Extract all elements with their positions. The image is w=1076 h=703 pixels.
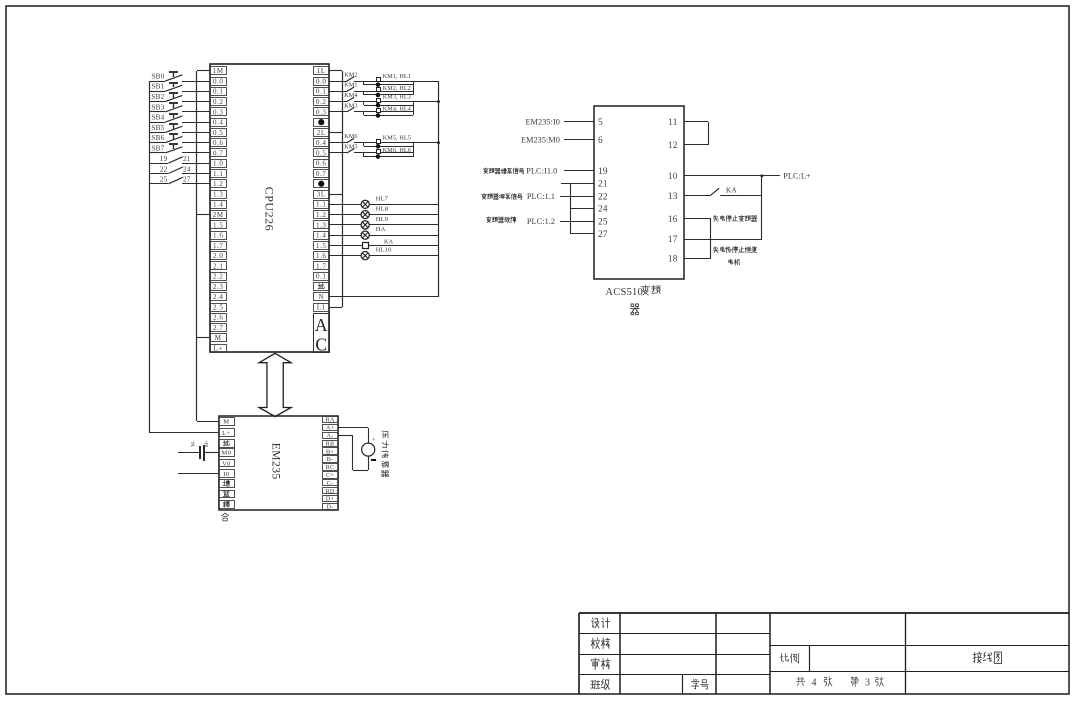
svg-text:16: 16 bbox=[668, 214, 678, 224]
svg-text:1.1: 1.1 bbox=[213, 170, 223, 178]
svg-text:SB7: SB7 bbox=[151, 144, 164, 152]
svg-text:2.3: 2.3 bbox=[213, 283, 223, 291]
svg-text:M: M bbox=[215, 334, 222, 342]
svg-text:10: 10 bbox=[668, 171, 678, 181]
svg-text:A+: A+ bbox=[326, 425, 335, 432]
svg-text:EM235:I0: EM235:I0 bbox=[526, 118, 560, 127]
svg-text:1.5: 1.5 bbox=[316, 242, 326, 250]
svg-text:17: 17 bbox=[668, 234, 678, 244]
svg-text:2L: 2L bbox=[317, 129, 326, 137]
svg-text:11: 11 bbox=[668, 117, 678, 127]
svg-text:C-: C- bbox=[327, 480, 334, 487]
svg-text:25: 25 bbox=[160, 175, 168, 184]
svg-text:SB5: SB5 bbox=[151, 124, 164, 132]
svg-text:RA: RA bbox=[326, 417, 335, 424]
svg-text:0.1: 0.1 bbox=[316, 88, 326, 96]
svg-text:M+: M+ bbox=[205, 440, 210, 447]
svg-text:D+: D+ bbox=[326, 496, 335, 503]
svg-text:1.6: 1.6 bbox=[316, 252, 326, 260]
svg-text:KM2, HL2: KM2, HL2 bbox=[383, 85, 411, 92]
svg-text:HL7: HL7 bbox=[376, 195, 389, 202]
svg-text:0.5: 0.5 bbox=[213, 129, 223, 137]
svg-text:A: A bbox=[315, 315, 328, 335]
svg-text:21: 21 bbox=[183, 154, 191, 163]
svg-text:KM4: KM4 bbox=[344, 92, 357, 99]
svg-text:SB3: SB3 bbox=[151, 103, 164, 111]
svg-text:1.4: 1.4 bbox=[316, 232, 326, 240]
svg-text:24: 24 bbox=[183, 164, 191, 173]
svg-text:L+: L+ bbox=[222, 430, 230, 437]
svg-text:1L: 1L bbox=[317, 67, 326, 75]
svg-text:0.1: 0.1 bbox=[316, 273, 326, 281]
svg-text:1.1: 1.1 bbox=[316, 201, 326, 209]
svg-text:KM6, HL6: KM6, HL6 bbox=[383, 147, 411, 154]
svg-text:PLC:1.2: PLC:1.2 bbox=[527, 217, 555, 226]
svg-text:HA: HA bbox=[376, 226, 386, 233]
svg-text:KM6: KM6 bbox=[344, 133, 357, 140]
svg-text:M-: M- bbox=[192, 440, 197, 446]
svg-text:SB1: SB1 bbox=[151, 83, 164, 91]
svg-text:19: 19 bbox=[160, 154, 168, 163]
svg-text:HL8: HL8 bbox=[376, 206, 389, 213]
svg-text:2.7: 2.7 bbox=[213, 324, 223, 332]
svg-text:EM235: EM235 bbox=[269, 443, 281, 480]
svg-text:0.2: 0.2 bbox=[316, 98, 326, 106]
svg-text:PLC:I1.0: PLC:I1.0 bbox=[526, 167, 557, 176]
svg-text:2.2: 2.2 bbox=[213, 273, 223, 281]
svg-text:2.1: 2.1 bbox=[213, 262, 223, 270]
svg-text:22: 22 bbox=[160, 164, 168, 173]
svg-text:HL9: HL9 bbox=[376, 216, 389, 223]
svg-text:1.6: 1.6 bbox=[213, 232, 223, 240]
svg-text:KM5: KM5 bbox=[344, 143, 357, 150]
svg-text:4: 4 bbox=[812, 678, 817, 689]
svg-text:KM4, HL4: KM4, HL4 bbox=[383, 106, 411, 113]
svg-text:18: 18 bbox=[668, 253, 678, 263]
svg-text:RB: RB bbox=[326, 440, 335, 447]
svg-text:SB6: SB6 bbox=[151, 134, 164, 142]
svg-text:0.7: 0.7 bbox=[316, 170, 326, 178]
svg-text:EM235:M0: EM235:M0 bbox=[521, 135, 560, 144]
svg-text:13: 13 bbox=[668, 191, 678, 201]
svg-text:2.5: 2.5 bbox=[213, 303, 223, 311]
svg-text:1.3: 1.3 bbox=[316, 221, 326, 229]
svg-text:0.4: 0.4 bbox=[213, 119, 223, 127]
svg-text:L+: L+ bbox=[214, 344, 223, 352]
svg-text:1.2: 1.2 bbox=[316, 211, 326, 219]
svg-text:SB2: SB2 bbox=[151, 93, 164, 101]
svg-text:KM2: KM2 bbox=[344, 71, 357, 78]
svg-text:KM1: KM1 bbox=[344, 82, 357, 89]
svg-text:1.7: 1.7 bbox=[316, 262, 326, 270]
svg-text:5: 5 bbox=[598, 117, 603, 127]
svg-text:21: 21 bbox=[598, 179, 608, 189]
svg-text:SB0: SB0 bbox=[151, 72, 164, 80]
svg-text:N: N bbox=[318, 293, 324, 301]
svg-text:0.3: 0.3 bbox=[213, 108, 223, 116]
svg-text:0.2: 0.2 bbox=[213, 98, 223, 106]
svg-text:2.0: 2.0 bbox=[213, 252, 223, 260]
svg-text:27: 27 bbox=[183, 175, 191, 184]
svg-text:6: 6 bbox=[598, 135, 603, 145]
svg-text:D-: D- bbox=[327, 504, 334, 511]
svg-text:SB4: SB4 bbox=[151, 114, 164, 122]
svg-text:CPU226: CPU226 bbox=[262, 187, 276, 231]
svg-text:2.4: 2.4 bbox=[213, 293, 223, 301]
svg-text:0.6: 0.6 bbox=[316, 160, 326, 168]
svg-text:1.5: 1.5 bbox=[213, 221, 223, 229]
svg-text:2M: 2M bbox=[213, 211, 224, 219]
svg-text:2.6: 2.6 bbox=[213, 314, 223, 322]
svg-text:PLC:L+: PLC:L+ bbox=[783, 172, 811, 181]
svg-text:I0: I0 bbox=[223, 471, 229, 478]
svg-text:0.4: 0.4 bbox=[316, 139, 326, 147]
svg-text:27: 27 bbox=[598, 229, 608, 239]
svg-text:1M: 1M bbox=[213, 67, 224, 75]
svg-text:1.7: 1.7 bbox=[213, 242, 223, 250]
svg-text:V0: V0 bbox=[222, 460, 231, 467]
svg-text:KA: KA bbox=[726, 186, 737, 194]
svg-text:PLC:1.1: PLC:1.1 bbox=[527, 192, 555, 201]
svg-text:+: + bbox=[372, 437, 376, 444]
svg-text:RC: RC bbox=[326, 464, 335, 471]
svg-text:0.0: 0.0 bbox=[316, 77, 326, 85]
svg-text:24: 24 bbox=[598, 204, 608, 214]
svg-text:KM3, HL3: KM3, HL3 bbox=[383, 93, 411, 100]
svg-text:1.3: 1.3 bbox=[213, 190, 223, 198]
svg-text:KM3: KM3 bbox=[344, 102, 357, 109]
svg-text:C: C bbox=[315, 335, 327, 355]
svg-text:C+: C+ bbox=[326, 472, 334, 479]
svg-text:1.0: 1.0 bbox=[213, 160, 223, 168]
svg-text:3L: 3L bbox=[317, 190, 326, 198]
svg-text:0.5: 0.5 bbox=[316, 149, 326, 157]
svg-text:KM1, HL1: KM1, HL1 bbox=[383, 73, 411, 80]
svg-text:L1: L1 bbox=[317, 303, 326, 311]
svg-text:HL10: HL10 bbox=[376, 247, 392, 254]
svg-text:0.6: 0.6 bbox=[213, 139, 223, 147]
svg-text:1.2: 1.2 bbox=[213, 180, 223, 188]
svg-text:22: 22 bbox=[598, 191, 608, 201]
svg-text:19: 19 bbox=[598, 166, 608, 176]
svg-text:0.7: 0.7 bbox=[213, 149, 223, 157]
svg-text:KM5, HL5: KM5, HL5 bbox=[383, 134, 411, 141]
svg-text:RD: RD bbox=[326, 488, 335, 495]
svg-text:0.0: 0.0 bbox=[213, 77, 223, 85]
svg-text:B-: B- bbox=[327, 456, 334, 463]
svg-text:3: 3 bbox=[865, 678, 870, 689]
svg-text:0.1: 0.1 bbox=[213, 88, 223, 96]
svg-text:ACS510: ACS510 bbox=[605, 287, 643, 298]
svg-text:25: 25 bbox=[598, 217, 608, 227]
svg-text:1.4: 1.4 bbox=[213, 201, 223, 209]
svg-text:0.3: 0.3 bbox=[316, 108, 326, 116]
svg-text:12: 12 bbox=[668, 140, 678, 150]
svg-text:KA: KA bbox=[384, 238, 394, 245]
svg-text:M0: M0 bbox=[221, 450, 231, 457]
svg-text:A-: A- bbox=[327, 433, 334, 440]
svg-text:B+: B+ bbox=[326, 448, 334, 455]
svg-text:M: M bbox=[223, 419, 229, 426]
